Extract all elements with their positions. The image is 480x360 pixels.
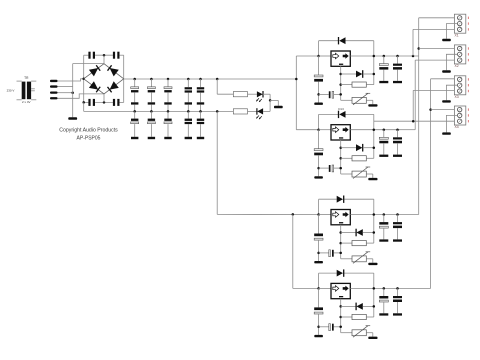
node block1 input cap branch [317, 93, 320, 96]
terminal pin 1 [50, 80, 58, 82]
wire bus C vertical [414, 60, 416, 130]
capacitor C7 (bank upper column) [164, 78, 172, 113]
wire block2 trimmer right [366, 174, 373, 178]
svg-text:TR: TR [24, 76, 29, 80]
wire to bridge top vertex [73, 63, 104, 65]
ground bar (block1 input) [314, 103, 323, 105]
diode D14 (block3 bypass) [337, 196, 344, 203]
wire block2 resistor right [366, 157, 374, 159]
capacitor (block3 adjust branch) [319, 250, 341, 257]
node block2 adj-diode [339, 146, 342, 149]
label 230 V [7, 89, 15, 93]
wire block4 output extension [400, 287, 431, 289]
node block1 adj-resistor [339, 83, 342, 86]
node block3 adj-diode [339, 231, 342, 234]
resistor (block3 feedback) [352, 241, 366, 246]
node block4 output-diode junction [373, 305, 376, 308]
capacitor (block2 output film) [393, 128, 402, 156]
wire bus B to connector2 pin1 [419, 48, 458, 50]
voltage regulator U2 [331, 125, 350, 140]
wire bridge bottom rail right [120, 101, 124, 103]
svg-text:X3: X3 [455, 95, 459, 99]
connector X3 pin 2 [458, 83, 462, 87]
wire bridge edge NE [104, 64, 124, 79]
pin polarity marks X2 [468, 47, 469, 61]
node block3 input junction [317, 213, 320, 216]
capacitor C4 (bridge snubber bottom-right) [113, 99, 120, 106]
ground bar (block1 trimmer) [368, 104, 377, 106]
label X3 [455, 95, 459, 99]
transformer TR primary lead bottom [17, 99, 22, 101]
wire 0V drop to lower blocks [216, 111, 218, 214]
transformer TR primary winding bar [22, 82, 26, 100]
resistor R2 (LED series) [233, 109, 247, 114]
wire block1 bypass top [319, 40, 374, 42]
capacitor C13 (bank lower column) [185, 111, 192, 139]
node block1 adj-diode [339, 73, 342, 76]
wire block4 resistor right [366, 316, 374, 318]
wire block4 bypass top [319, 272, 374, 274]
ground bar (connector X3) [442, 100, 451, 102]
wire block1 output [350, 55, 400, 57]
wire block3 output [350, 214, 400, 216]
wire terminal 2 to center vertical [58, 86, 73, 88]
voltage regulator U1 [331, 51, 350, 66]
wire block3 trimmer left [341, 258, 352, 260]
connector X3 body [454, 76, 465, 95]
node block2 input junction [317, 128, 320, 131]
wire block3 protection diode right [363, 232, 374, 234]
wire block4 input to box [319, 287, 331, 289]
wire 0V mid rail [84, 110, 234, 112]
wire block3 protection diode left [341, 232, 356, 234]
node terminal 3 junction [71, 91, 74, 94]
node block4 adj-resistor [339, 316, 342, 319]
wire bus F vertical [412, 90, 414, 121]
diode (block4 protection) [356, 303, 363, 311]
node bus F lower junction [412, 120, 415, 123]
ground bar (connector X2) [442, 70, 451, 72]
text copyright line 1 [59, 128, 118, 134]
label X2 [455, 64, 459, 68]
wire block1 trimmer left [341, 99, 352, 101]
svg-text:2 x 4V: 2 x 4V [22, 100, 31, 104]
node block4 output-bypass junction [373, 287, 376, 290]
wire block3 bypass left vertical [318, 199, 320, 214]
text copyright line 2 [77, 135, 101, 141]
transformer TR secondary winding bar [27, 82, 31, 100]
ground bar (block2 trimmer) [368, 178, 377, 180]
wire lower feed horizontal [217, 213, 318, 215]
capacitor C2 (bridge snubber top-right) [113, 52, 120, 59]
wire LED2 to corner [263, 100, 270, 111]
node block3 output-diode junction [373, 231, 376, 234]
wire block2 bypass top [319, 113, 374, 115]
trimmer (block2 voltage set) [352, 167, 370, 179]
wire bridge right vertical [123, 55, 125, 102]
node LED common [269, 99, 272, 102]
node bridge left vertex [82, 78, 85, 81]
wire bus F to connector3 pin3 [413, 89, 457, 91]
ground bar (connector X1) [442, 39, 451, 41]
wire center-tap vertical [72, 64, 74, 118]
diode D4 (bridge SE) [108, 81, 119, 92]
resistor (block2 feedback) [352, 156, 366, 161]
wire block1 protection diode right [363, 73, 374, 75]
capacitor (block2 input electrolytic) [314, 130, 323, 177]
capacitor (block3 input electrolytic) [314, 215, 323, 262]
capacitor (block3 output electrolytic) [379, 213, 388, 241]
wire connector X4 pin2 hook [446, 115, 457, 132]
svg-text:X1: X1 [455, 33, 459, 37]
diode D2 (bridge NE) [108, 65, 119, 76]
wire bus B to connector1 pin1 [419, 17, 458, 19]
wire block4 output [350, 287, 400, 289]
capacitor C1 (bridge snubber top-left) [88, 52, 95, 59]
capacitor (block1 adjust branch) [319, 91, 341, 98]
capacitor (block2 output electrolytic) [379, 128, 388, 156]
capacitor (block4 output electrolytic) [379, 287, 388, 315]
voltage regulator U3 [331, 210, 350, 225]
connector X1 body [454, 14, 465, 33]
ground bar (block4 input) [314, 335, 323, 337]
wire block1 bypass right vertical [373, 41, 375, 85]
wire bridge stub bottom vertex [103, 94, 105, 103]
wire block2 protection diode left [341, 147, 356, 149]
node block3 adj-resistor [339, 242, 342, 245]
resistor R1 (LED series) [233, 92, 247, 97]
node mid rail LED tap [216, 110, 219, 113]
node block2 output-diode junction [373, 146, 376, 149]
connector X1 pin 2 [458, 21, 462, 25]
node bridge bottom-left corner [82, 101, 85, 104]
connector X4 pin 2 [458, 113, 462, 117]
capacitor (block1 output electrolytic) [379, 55, 388, 83]
connector X3 pin 1 [458, 77, 462, 81]
wire feed block1 input [296, 55, 318, 57]
node top rail LED tap [216, 78, 219, 81]
label X4 [455, 125, 459, 129]
wire block3 resistor right [366, 242, 374, 244]
wire feed block2 input [296, 129, 318, 131]
connector X4 body [454, 106, 465, 125]
capacitor C8 (bank upper column) [185, 78, 192, 113]
terminal pin 2 [50, 85, 58, 87]
wire bus D to connector3 pin1 [431, 78, 458, 80]
transformer TR secondary lead top [31, 80, 36, 82]
pin polarity marks X3 [468, 78, 469, 92]
wire feed block4 input [293, 287, 319, 289]
node block2 adj-resistor [339, 157, 342, 160]
node block4 adj-diode [339, 305, 342, 308]
ground bar (block3 trimmer) [368, 263, 377, 265]
wire connector X3 pin2 hook [446, 85, 457, 100]
wire block2 bypass left vertical [318, 114, 320, 129]
diode D3 (bridge SW) [89, 81, 100, 92]
node block3 output-bypass junction [373, 213, 376, 216]
capacitor C9 (bank upper column) [197, 78, 204, 113]
capacitor (block2 adjust branch) [319, 165, 341, 172]
connector X1 pin 1 [458, 16, 462, 20]
transformer TR secondary lead bottom [31, 99, 36, 101]
node block4 adj-cap [339, 326, 342, 329]
wire block3 resistor left [341, 242, 352, 244]
wire bridge top rail right [120, 54, 124, 56]
wire block1 adjust vertical [340, 66, 342, 100]
node bus B tap [417, 47, 420, 50]
wire negative link to connector4 pin3 [374, 120, 458, 122]
wire block4 trimmer left [341, 332, 352, 334]
wire block4 bypass right vertical [373, 273, 375, 317]
capacitor C5 (bank upper column) [131, 78, 139, 113]
wire block1 bypass left vertical [318, 41, 320, 56]
wire bridge left vertical [83, 55, 85, 102]
wire bus A to connector1 pin3 [413, 28, 457, 30]
wire LED common to ground [270, 100, 278, 105]
wire R1 to LED1 [248, 93, 257, 95]
svg-text:Copyright Audio Products: Copyright Audio Products [59, 128, 118, 134]
node block4 input junction [317, 287, 320, 290]
ground bar (connector X4) [442, 132, 451, 134]
label X1 [455, 33, 459, 37]
node lower feed split [292, 213, 295, 216]
svg-text:230 V: 230 V [7, 89, 15, 93]
wire bus D vertical [430, 79, 432, 289]
node bridge top rail junction [103, 54, 106, 57]
diode D15 (block4 bypass) [337, 269, 344, 276]
svg-text:D13: D13 [338, 107, 344, 111]
transformer TR center tap marks [31, 89, 35, 91]
node block1 adj-cap [339, 93, 342, 96]
capacitor C12 (bank lower column) [164, 111, 172, 139]
diode (block3 protection) [356, 229, 363, 237]
connector X2 pin 2 [458, 52, 462, 56]
LED D6 (negative rail indicator) [256, 108, 263, 119]
wire feed block4 vertical [292, 214, 294, 288]
trimmer (block3 voltage set) [352, 252, 370, 263]
capacitor (block1 output film) [393, 55, 402, 83]
wire connector X2 pin2 hook [446, 54, 457, 70]
wire block2 adjust vertical [340, 140, 342, 174]
wire bridge top rail left [84, 54, 89, 56]
wire block1 trimmer right [366, 100, 373, 104]
transformer TR label [24, 76, 29, 80]
terminal pin 3 [50, 92, 58, 94]
wire block1 protection diode left [341, 73, 356, 75]
connector X4 pin 1 [458, 107, 462, 111]
wire bridge edge SE [104, 79, 124, 94]
trimmer (block4 voltage set) [352, 326, 370, 338]
wire bridge bottom rail mid [95, 101, 113, 103]
wire LED1 to corner [263, 94, 270, 100]
capacitor (block3 output film) [393, 213, 402, 241]
wire block1 resistor left [341, 84, 352, 86]
node block2 input cap branch [317, 167, 320, 170]
node block1 output-bypass junction [373, 55, 376, 58]
node block3 adj-cap [339, 252, 342, 255]
node bridge bottom rail junction [103, 101, 106, 104]
capacitor (block4 output film) [393, 287, 402, 315]
pin polarity marks X1 [468, 17, 469, 31]
connector X2 pin 1 [458, 46, 462, 50]
wire bus A vertical [412, 29, 414, 56]
wire block2 output [350, 129, 400, 131]
connector X1 pin 3 [458, 27, 462, 31]
connector X2 pin 3 [458, 58, 462, 62]
wire block4 adjust vertical [340, 299, 342, 333]
connector X4 pin 3 [458, 119, 462, 123]
wire bridge stub top vertex [103, 55, 105, 64]
diode D13 (block2 bypass) [338, 107, 345, 118]
wire bridge edge NW [84, 64, 104, 79]
pin polarity marks X4 [468, 108, 469, 122]
svg-text:AP-PSP05: AP-PSP05 [77, 135, 101, 141]
wire block4 protection diode right [363, 305, 374, 307]
wire bridge bottom rail left [84, 101, 89, 103]
node block1 input junction [317, 55, 320, 58]
wire block3 bypass top [319, 198, 374, 200]
wire bridge top rail mid [95, 54, 113, 56]
diode D11 (block1 bypass) [339, 37, 346, 44]
capacitor C3 (bridge snubber bottom-left) [88, 99, 95, 106]
node block4 input cap branch [317, 326, 320, 329]
wire terminal 4 to bridge bottom vertex [58, 94, 105, 98]
capacitor (block4 adjust branch) [319, 324, 341, 331]
wire bus C to connector2 pin3 [415, 59, 457, 61]
ground bar at LEDs [274, 106, 283, 109]
wire block2 protection diode right [363, 147, 374, 149]
wire block4 resistor left [341, 316, 352, 318]
node block2 output-bypass junction [373, 128, 376, 131]
wire bridge edge SW [84, 79, 104, 94]
wire block2 output extension [400, 129, 415, 131]
connector X2 body [454, 45, 465, 64]
wire connector X1 pin2 hook [446, 24, 457, 39]
wire terminal 1 to bridge AC left node [58, 79, 84, 81]
wire bridge corner to mid rail [83, 102, 85, 111]
capacitor C6 (bank upper column) [147, 78, 155, 113]
wire block4 bypass left vertical [318, 273, 320, 288]
wire block3 bypass right vertical [373, 199, 375, 243]
node block1 output tap [412, 55, 415, 58]
wire block2 trimmer left [341, 173, 352, 175]
connector X3 pin 3 [458, 89, 462, 93]
wire bus D to connector4 pin1 [431, 109, 458, 111]
wire block4 protection diode left [341, 305, 356, 307]
diode (block1 protection) [356, 70, 363, 78]
transformer TR primary lead top [17, 80, 22, 82]
wire feed vertical to blocks 1-2 [295, 56, 297, 130]
wire block3 adjust vertical [340, 225, 342, 259]
terminal pin 4 [50, 97, 58, 99]
ground bar below terminals [68, 117, 77, 120]
capacitor C10 (bank lower column) [131, 111, 139, 139]
LED D5 (positive rail indicator) [256, 91, 263, 102]
resistor (block4 feedback) [352, 314, 366, 319]
ground bar (block2 input) [314, 176, 323, 178]
ground bar (block4 trimmer) [368, 337, 377, 339]
wire block2 input to box [319, 129, 331, 131]
resistor (block1 feedback) [352, 82, 366, 87]
svg-text:X4: X4 [455, 125, 459, 129]
capacitor C14 (bank lower column) [197, 111, 204, 139]
wire terminal 3 to center vertical [58, 92, 73, 94]
wire block2 resistor left [341, 157, 352, 159]
node bus D tap [429, 108, 432, 111]
capacitor (block4 input electrolytic) [314, 288, 323, 335]
node block1 output-diode junction [373, 73, 376, 76]
wire R2 to LED2 [248, 110, 257, 112]
node block2 adj-cap [339, 167, 342, 170]
node feed from top rail [295, 78, 298, 81]
diode (block2 protection) [356, 144, 363, 152]
wire block1 resistor right [366, 84, 374, 86]
ground bar (block3 input) [314, 261, 323, 263]
label 2 x 4V [22, 100, 31, 104]
capacitor C11 (bank lower column) [147, 111, 155, 139]
wire LED branch 1 drop [217, 79, 233, 94]
wire block1 output extension [400, 55, 419, 57]
wire block4 trimmer right [366, 333, 373, 337]
trimmer (block1 voltage set) [352, 93, 370, 105]
capacitor (block1 input electrolytic) [314, 56, 323, 103]
svg-text:X2: X2 [455, 64, 459, 68]
wire block2 bypass right vertical [373, 114, 375, 158]
diode D1 (bridge NW) [89, 65, 100, 76]
wire block3 trimmer right [366, 259, 373, 263]
wire block3 output extension [400, 214, 419, 216]
wire block1 input to box [319, 55, 331, 57]
voltage regulator U4 [331, 283, 350, 298]
wire +V top rail [124, 78, 297, 80]
wire bus B vertical [418, 18, 420, 215]
node block3 input cap branch [317, 252, 320, 255]
wire block3 input to box [319, 214, 331, 216]
